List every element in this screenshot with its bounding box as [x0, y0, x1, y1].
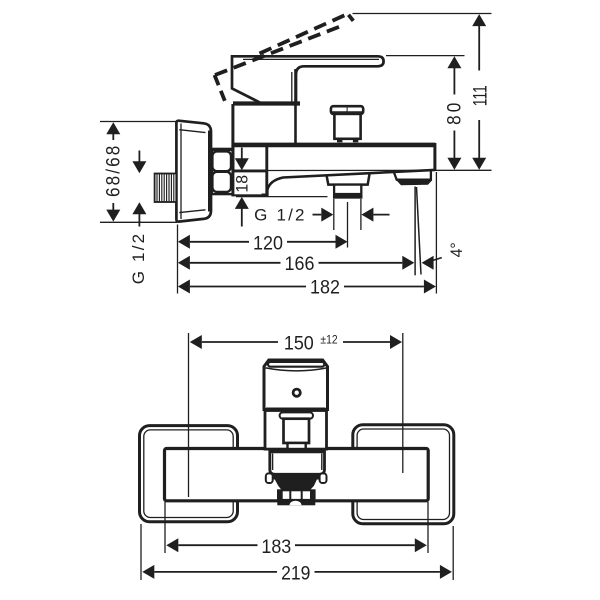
svg-text:111: 111 [469, 85, 491, 106]
svg-text:4°: 4° [448, 242, 467, 257]
svg-text:219: 219 [281, 562, 310, 584]
svg-text:182: 182 [310, 276, 340, 298]
svg-text:150: 150 [284, 332, 314, 354]
svg-text:166: 166 [285, 252, 315, 274]
svg-text:18: 18 [233, 175, 252, 193]
svg-text:G 1/2: G 1/2 [254, 205, 307, 224]
svg-text:±12: ±12 [320, 334, 337, 347]
svg-text:80: 80 [443, 100, 465, 125]
svg-text:120: 120 [253, 232, 283, 254]
svg-text:183: 183 [261, 536, 291, 558]
svg-text:G 1/2: G 1/2 [129, 232, 148, 285]
svg-text:68/68: 68/68 [101, 144, 123, 197]
